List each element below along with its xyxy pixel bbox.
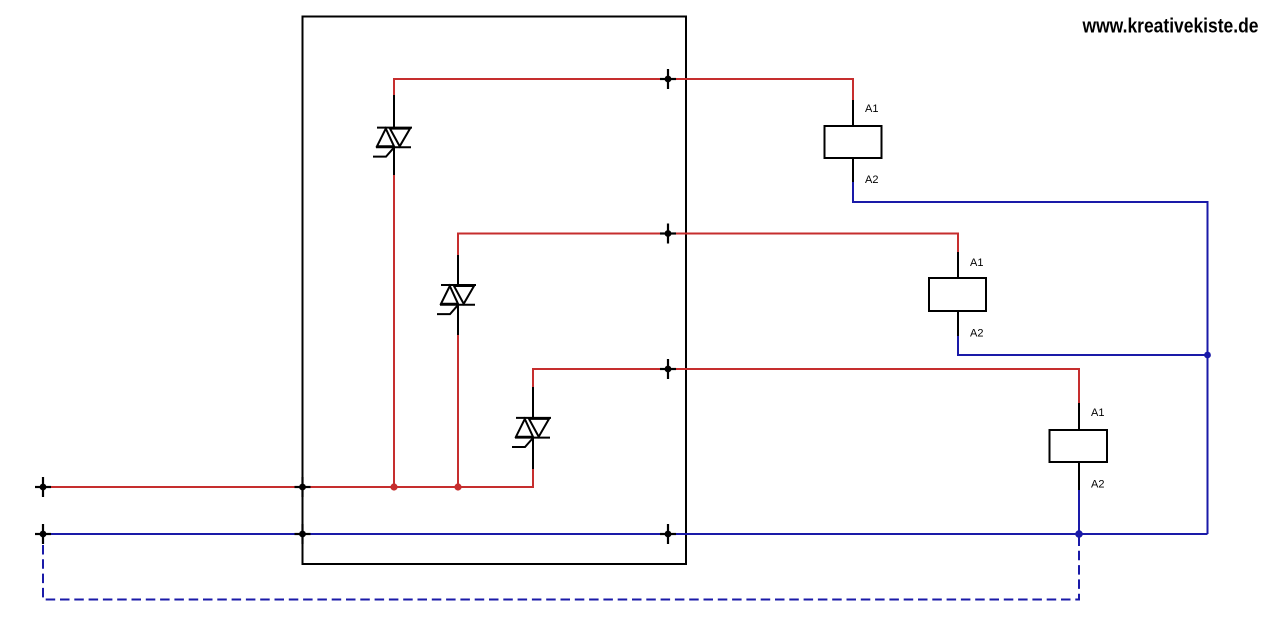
svg-text:www.kreativekiste.de: www.kreativekiste.de (1082, 16, 1259, 38)
svg-text:A1: A1 (970, 257, 983, 269)
svg-text:A2: A2 (970, 328, 983, 340)
svg-text:A2: A2 (1091, 479, 1104, 491)
svg-text:A1: A1 (865, 103, 878, 115)
svg-text:A2: A2 (865, 174, 878, 186)
svg-text:A1: A1 (1091, 407, 1104, 419)
